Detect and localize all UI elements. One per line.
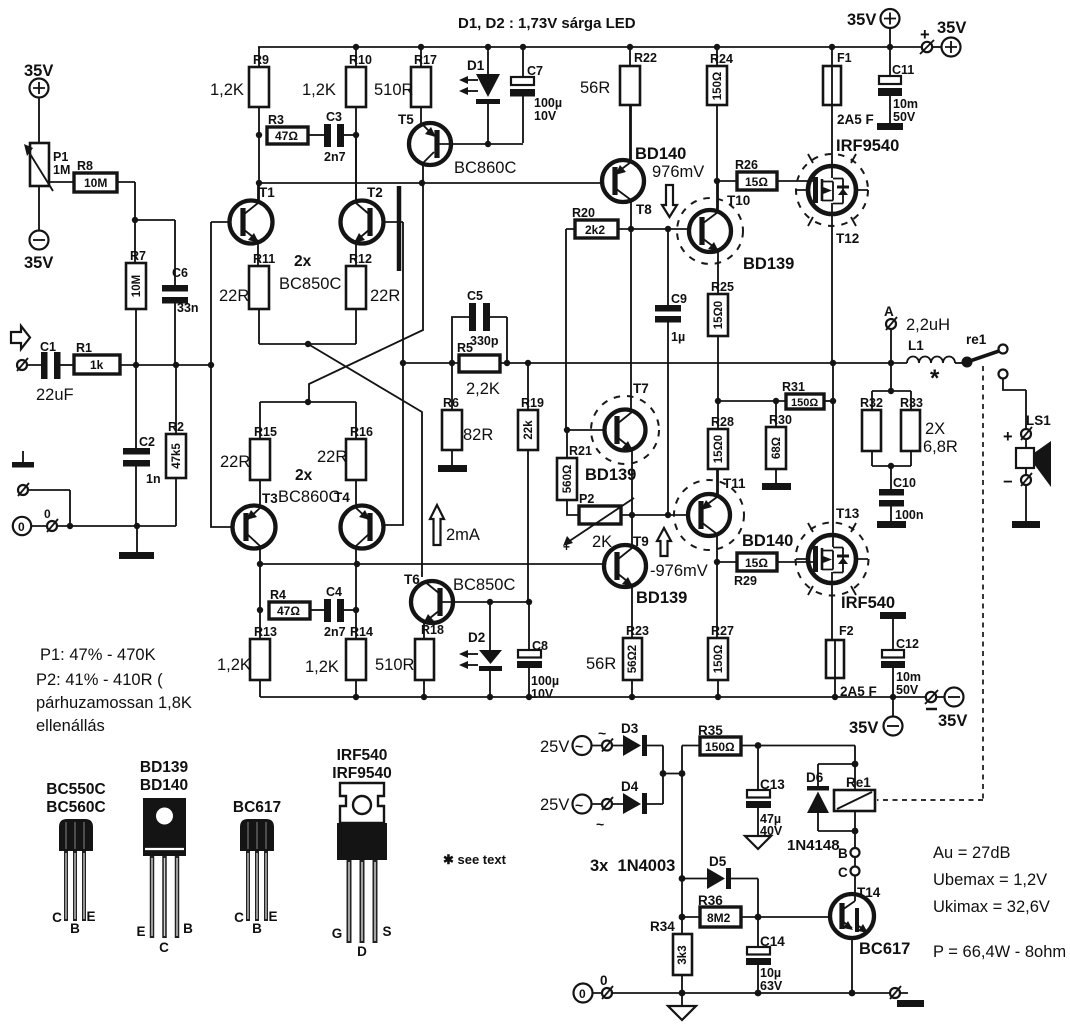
svg-text:R20: R20: [572, 206, 595, 220]
wire lower signal line to T9 base: [260, 563, 604, 565]
svg-text:párhuzamossan 1,8K: párhuzamossan 1,8K: [36, 694, 192, 712]
svg-text:BD139: BD139: [743, 255, 794, 273]
svg-text:IRF9540: IRF9540: [332, 765, 391, 782]
svg-text:C1: C1: [40, 340, 56, 354]
svg-text:P2: 41% - 410R (: P2: 41% - 410R (: [36, 671, 163, 689]
svg-text:10V: 10V: [531, 687, 554, 701]
diode D4: [623, 793, 641, 814]
svg-text:C9: C9: [671, 292, 687, 306]
svg-text:R22: R22: [634, 51, 657, 65]
svg-text:BC560C: BC560C: [46, 799, 105, 816]
wire T1/T3 base column: [211, 222, 233, 527]
resistor R24: [716, 47, 718, 66]
svg-text:~: ~: [596, 816, 604, 832]
svg-text:3k3: 3k3: [677, 945, 689, 964]
capacitor C7: [522, 47, 524, 77]
svg-text:35V: 35V: [24, 62, 53, 80]
potentiometer P2: [579, 506, 621, 524]
terminal 35V plus (top right): [922, 42, 932, 52]
svg-text:R10: R10: [349, 53, 372, 67]
transistor T11: [674, 480, 744, 550]
svg-text:BC617: BC617: [859, 940, 910, 958]
svg-text:BD139: BD139: [636, 589, 687, 607]
svg-text:*: *: [930, 365, 940, 392]
svg-text:6,8R: 6,8R: [923, 438, 958, 456]
terminal 0 (left): [13, 517, 31, 535]
svg-text:D2: D2: [468, 630, 485, 645]
resistor R17: [420, 47, 422, 67]
svg-text:22R: 22R: [220, 453, 250, 471]
wire input line: [120, 364, 211, 366]
resistor R36: [682, 916, 700, 918]
ground below C2: [136, 526, 138, 552]
svg-text:BD140: BD140: [140, 777, 188, 794]
resistor R2: [175, 365, 177, 434]
mosfet T13 IRF540: [796, 523, 869, 596]
capacitor C10: [879, 489, 904, 496]
svg-text:R31: R31: [782, 380, 805, 394]
svg-text:G: G: [332, 926, 343, 941]
svg-text:R35: R35: [698, 723, 723, 738]
svg-text:F1: F1: [837, 51, 852, 65]
input jack: [17, 360, 27, 370]
svg-text:R8: R8: [77, 159, 93, 173]
capacitor C3: [308, 134, 324, 136]
svg-text:2K: 2K: [592, 533, 612, 551]
resistor R16: [355, 402, 357, 439]
resistor R5: [459, 355, 500, 372]
resistor R9: [258, 47, 260, 67]
svg-text:A: A: [884, 304, 894, 319]
wire feedback/output line: [403, 362, 907, 364]
svg-text:1,2K: 1,2K: [210, 81, 244, 99]
svg-text:C11: C11: [892, 63, 914, 77]
svg-text:T3: T3: [262, 491, 278, 506]
svg-text:BC860C: BC860C: [454, 159, 516, 177]
supply 35V minus (below bus): [892, 697, 894, 717]
svg-text:R30: R30: [769, 413, 792, 427]
diode D6: [852, 761, 859, 768]
svg-text:150Ω: 150Ω: [713, 645, 725, 673]
svg-text:C3: C3: [326, 110, 342, 124]
svg-text:15Ω: 15Ω: [745, 175, 768, 189]
wire cross-coupling diagonal to T6: [308, 344, 422, 577]
svg-text:+: +: [1003, 428, 1013, 446]
svg-text:IRF9540: IRF9540: [836, 137, 899, 155]
svg-text:100µ: 100µ: [534, 96, 562, 110]
svg-text:150Ω: 150Ω: [791, 397, 818, 409]
wire supply 0V bus dots: [679, 990, 686, 997]
svg-text:1M: 1M: [53, 163, 70, 177]
svg-text:+: +: [920, 26, 930, 44]
svg-text:D4: D4: [621, 779, 639, 794]
svg-text:1,2K: 1,2K: [305, 658, 339, 676]
svg-text:C12: C12: [896, 637, 919, 651]
resistor R31: [715, 398, 721, 404]
svg-text:T6: T6: [404, 572, 420, 587]
svg-text:2x: 2x: [295, 467, 313, 484]
supply 35V minus (left): [30, 231, 49, 250]
svg-text:35V: 35V: [849, 719, 878, 737]
svg-text:C5: C5: [467, 289, 483, 303]
svg-text:P2: P2: [579, 492, 594, 506]
wire emitter join (lower pair): [260, 401, 356, 403]
svg-text:R4: R4: [270, 588, 286, 602]
resistor R1: [74, 355, 120, 374]
terminal right + ground: [890, 988, 900, 998]
svg-text:re1: re1: [966, 332, 987, 347]
artifact bar near T2: [397, 186, 402, 271]
svg-text:~: ~: [575, 738, 583, 754]
svg-text:R11: R11: [253, 252, 275, 266]
svg-text:50V: 50V: [893, 110, 916, 124]
svg-text:63V: 63V: [760, 979, 783, 993]
svg-text:56R: 56R: [580, 79, 610, 97]
svg-text:P1: P1: [53, 150, 68, 164]
svg-text:B: B: [252, 921, 262, 936]
input arrow symbol: [11, 326, 30, 349]
svg-text:2k2: 2k2: [585, 223, 605, 237]
wire bottom -35V bus: [260, 696, 925, 698]
svg-text:C2: C2: [139, 435, 155, 449]
svg-text:3x 1N4003: 3x 1N4003: [590, 857, 675, 875]
svg-text:10V: 10V: [534, 109, 557, 123]
svg-text:R25: R25: [711, 280, 734, 294]
svg-text:2X: 2X: [925, 420, 945, 438]
fuse F1: [831, 47, 833, 66]
svg-text:R13: R13: [254, 625, 277, 639]
svg-text:35V: 35V: [847, 11, 876, 29]
svg-text:560Ω: 560Ω: [562, 465, 574, 493]
transistor T5: [409, 123, 451, 165]
svg-text:D: D: [357, 944, 367, 959]
capacitor C2: [135, 365, 137, 448]
svg-text:B: B: [183, 921, 193, 936]
svg-text:B: B: [838, 846, 848, 861]
svg-text:−: −: [1003, 473, 1013, 491]
svg-text:R24: R24: [710, 52, 733, 66]
svg-text:~: ~: [575, 797, 583, 813]
svg-text:0: 0: [600, 973, 608, 988]
svg-text:T11: T11: [723, 476, 746, 491]
svg-text:68Ω: 68Ω: [771, 437, 783, 459]
svg-text:2,2K: 2,2K: [466, 380, 500, 398]
svg-text:22k: 22k: [523, 420, 535, 440]
resistor R22: [629, 47, 631, 66]
svg-text:Re1: Re1: [846, 775, 871, 790]
LED D1: [487, 47, 489, 74]
svg-text:8M2: 8M2: [707, 911, 731, 925]
resistor R34: [681, 774, 683, 935]
capacitor C1: [41, 352, 48, 379]
transistor T8: [602, 160, 644, 202]
svg-text:R17: R17: [414, 53, 437, 67]
svg-text:R16: R16: [350, 425, 373, 439]
resistor R15: [259, 402, 261, 439]
jack (shield): [18, 485, 28, 495]
resistor R19: [527, 363, 529, 410]
svg-text:C: C: [838, 865, 848, 880]
svg-text:22R: 22R: [370, 287, 400, 305]
svg-text:10M: 10M: [84, 176, 107, 190]
svg-text:R9: R9: [253, 53, 269, 67]
wire top +35V bus: [258, 46, 921, 48]
ground R6: [438, 465, 467, 472]
svg-text:R2: R2: [168, 420, 184, 434]
svg-text:BC550C: BC550C: [46, 781, 105, 798]
wire 0V line: [70, 525, 176, 527]
svg-text:C13: C13: [760, 777, 785, 792]
node junction dots on top bus: [353, 44, 359, 50]
svg-text:S: S: [382, 924, 391, 939]
svg-text:BC617: BC617: [233, 799, 281, 816]
svg-text:0: 0: [44, 507, 51, 521]
capacitor C14: [757, 917, 759, 947]
svg-text:1n: 1n: [146, 472, 161, 486]
svg-text:56Ω2: 56Ω2: [627, 645, 639, 673]
svg-text:BC860C: BC860C: [278, 488, 340, 506]
ground stub (upper left): [22, 451, 24, 462]
svg-text:25V: 25V: [540, 796, 569, 814]
svg-text:25V: 25V: [540, 738, 569, 756]
transistor T7: [591, 396, 659, 464]
transistor T1: [230, 201, 273, 244]
svg-text:22R: 22R: [219, 287, 249, 305]
wire bus to T8 base: [259, 182, 602, 184]
resistor R7: [134, 220, 136, 263]
svg-text:BD140: BD140: [742, 532, 793, 550]
svg-text:R29: R29: [734, 574, 757, 588]
svg-text:2,2uH: 2,2uH: [906, 316, 950, 334]
svg-text:510R: 510R: [374, 81, 414, 99]
resistor R23: [623, 638, 642, 680]
svg-text:P1: 47% - 470K: P1: 47% - 470K: [40, 646, 156, 664]
svg-text:C14: C14: [760, 934, 785, 949]
svg-text:R23: R23: [626, 624, 649, 638]
svg-text:22R: 22R: [317, 448, 347, 466]
svg-text:R34: R34: [650, 919, 675, 934]
svg-text:R21: R21: [569, 444, 592, 458]
ground triangle below R34: [681, 993, 683, 1006]
svg-text:15Ω: 15Ω: [745, 556, 768, 570]
svg-text:10µ: 10µ: [760, 966, 781, 980]
relay coil Re1: [854, 764, 856, 790]
resistor R20: [575, 220, 618, 238]
ground R30: [762, 483, 791, 490]
svg-text:1µ: 1µ: [671, 330, 685, 344]
svg-text:R12: R12: [349, 252, 372, 266]
svg-text:R1: R1: [76, 341, 92, 355]
capacitor C4: [310, 609, 324, 611]
svg-text:✱ see text: ✱ see text: [443, 852, 507, 867]
mosfet T12 IRF9540: [796, 154, 868, 226]
resistor R14: [355, 564, 357, 639]
svg-text:T2: T2: [367, 185, 383, 200]
svg-text:47k5: 47k5: [171, 443, 183, 469]
svg-text:LS1: LS1: [1026, 413, 1051, 428]
wire T2/T4 base column: [383, 222, 403, 525]
svg-text:C: C: [159, 940, 169, 955]
svg-text:10m: 10m: [893, 97, 918, 111]
resistor R10: [355, 47, 357, 67]
resistor R3: [267, 127, 308, 144]
svg-text:15Ω0: 15Ω0: [713, 301, 725, 329]
svg-text:50V: 50V: [896, 683, 919, 697]
svg-text:D3: D3: [621, 721, 639, 736]
terminal 0 (supply): [574, 984, 593, 1003]
transistor T6: [411, 581, 453, 623]
wire emitter join (upper pair): [259, 343, 356, 345]
fuse F2: [826, 640, 844, 678]
resistor R28: [708, 429, 728, 469]
transistor T9: [604, 545, 646, 587]
svg-text:2n7: 2n7: [324, 150, 346, 164]
svg-text:35V: 35V: [938, 712, 967, 730]
capacitor C6: [135, 220, 175, 285]
svg-text:C4: C4: [326, 585, 342, 599]
svg-text:-976mV: -976mV: [650, 562, 708, 580]
svg-text:BC850C: BC850C: [279, 275, 341, 293]
svg-text:Au = 27dB: Au = 27dB: [933, 844, 1011, 862]
svg-text:T5: T5: [398, 112, 414, 127]
resistor R25: [708, 294, 728, 336]
svg-text:10M: 10M: [131, 275, 143, 297]
capacitor C8: [528, 602, 530, 650]
svg-text:T8: T8: [636, 202, 652, 217]
transistor T10: [677, 198, 743, 264]
svg-text:BD139: BD139: [585, 466, 636, 484]
svg-text:R19: R19: [521, 396, 544, 410]
svg-text:BC850C: BC850C: [453, 576, 515, 594]
svg-text:R15: R15: [254, 425, 277, 439]
svg-text:C7: C7: [527, 64, 543, 78]
svg-text:R18: R18: [421, 623, 444, 637]
capacitor C12: [880, 612, 906, 619]
resistor R8: [49, 181, 74, 183]
svg-text:R6: R6: [443, 396, 459, 410]
resistors R32 R33: [872, 363, 911, 410]
transistor T4: [341, 506, 384, 549]
svg-text:D5: D5: [709, 854, 727, 869]
diode D5: [679, 875, 686, 882]
capacitor C9: [667, 229, 669, 305]
capacitor C11: [889, 47, 891, 76]
resistor R6: [451, 363, 453, 410]
svg-text:Ubemax = 1,2V: Ubemax = 1,2V: [933, 871, 1047, 889]
svg-text:510R: 510R: [375, 656, 415, 674]
resistor R26: [737, 172, 777, 190]
transistor T2: [341, 201, 384, 244]
svg-text:33n: 33n: [177, 301, 199, 315]
terminal 35V minus (right): [926, 692, 936, 702]
svg-text:0: 0: [18, 520, 25, 534]
svg-text:T9: T9: [633, 534, 649, 549]
svg-text:T12: T12: [836, 231, 859, 246]
svg-text:B: B: [70, 921, 80, 936]
dashed link to relay: [877, 366, 983, 800]
resistor R27: [708, 638, 728, 680]
svg-text:R27: R27: [711, 624, 734, 638]
svg-text:~: ~: [598, 725, 606, 741]
svg-text:BD139: BD139: [140, 759, 189, 776]
svg-text:D6: D6: [806, 770, 824, 785]
svg-text:E: E: [86, 909, 95, 924]
resistor R30: [775, 401, 777, 427]
svg-text:R33: R33: [900, 396, 923, 410]
svg-text:C: C: [234, 910, 244, 925]
svg-text:T14: T14: [857, 885, 881, 900]
svg-text:82R: 82R: [463, 426, 493, 444]
svg-text:T10: T10: [727, 193, 750, 208]
svg-text:R14: R14: [350, 625, 373, 639]
svg-text:47Ω: 47Ω: [277, 604, 300, 618]
svg-text:1,2K: 1,2K: [217, 656, 251, 674]
LED D2: [489, 602, 491, 650]
svg-text:ellenállás: ellenállás: [36, 717, 105, 735]
svg-text:1N4148: 1N4148: [787, 837, 840, 854]
capacitor C5: [452, 317, 507, 363]
svg-text:+: +: [563, 540, 570, 554]
svg-text:Ukimax = 32,6V: Ukimax = 32,6V: [933, 898, 1050, 916]
resistor R11: [249, 266, 269, 309]
svg-text:330p: 330p: [470, 334, 499, 348]
svg-text:C8: C8: [532, 639, 548, 653]
svg-text:R26: R26: [735, 158, 758, 172]
svg-text:T7: T7: [633, 381, 649, 396]
resistor R12: [346, 266, 366, 309]
svg-text:T1: T1: [259, 185, 275, 200]
svg-text:L1: L1: [908, 338, 924, 353]
svg-text:1k: 1k: [90, 358, 104, 372]
svg-text:R36: R36: [698, 893, 723, 908]
svg-text:C: C: [52, 910, 62, 925]
resistor R4: [259, 564, 261, 639]
svg-text:100n: 100n: [895, 508, 924, 522]
svg-text:150Ω: 150Ω: [712, 72, 724, 100]
svg-text:100µ: 100µ: [531, 674, 559, 688]
svg-text:56R: 56R: [586, 655, 616, 673]
transistor T3: [233, 506, 276, 549]
svg-text:1,2K: 1,2K: [302, 81, 336, 99]
transistor T14: [830, 894, 874, 938]
svg-text:15Ω0: 15Ω0: [713, 435, 725, 463]
resistor R21: [566, 430, 568, 458]
relay contact re1: [955, 362, 962, 364]
svg-text:R7: R7: [130, 249, 146, 263]
svg-text:IRF540: IRF540: [337, 747, 388, 764]
capacitor C13: [757, 746, 759, 791]
resistor R18: [415, 639, 434, 680]
svg-text:2A5 F: 2A5 F: [837, 112, 874, 127]
svg-text:976mV: 976mV: [652, 163, 704, 181]
svg-text:10m: 10m: [896, 670, 921, 684]
svg-text:2mA: 2mA: [446, 526, 480, 544]
svg-text:C6: C6: [172, 266, 188, 280]
svg-text:C10: C10: [893, 476, 916, 490]
svg-text:47Ω: 47Ω: [275, 129, 298, 143]
svg-text:150Ω: 150Ω: [705, 740, 735, 754]
svg-text:T4: T4: [334, 490, 350, 505]
current arrow 2mA: [430, 505, 444, 545]
potentiometer P1: [30, 143, 49, 186]
svg-text:0: 0: [579, 987, 586, 1001]
svg-text:R28: R28: [711, 415, 734, 429]
svg-text:40V: 40V: [760, 824, 783, 838]
junction rectifier: [660, 770, 667, 777]
arrow -976mV: [657, 528, 671, 556]
svg-text:D1, D2 : 1,73V sárga LED: D1, D2 : 1,73V sárga LED: [458, 15, 636, 32]
diode D3: [623, 735, 641, 756]
